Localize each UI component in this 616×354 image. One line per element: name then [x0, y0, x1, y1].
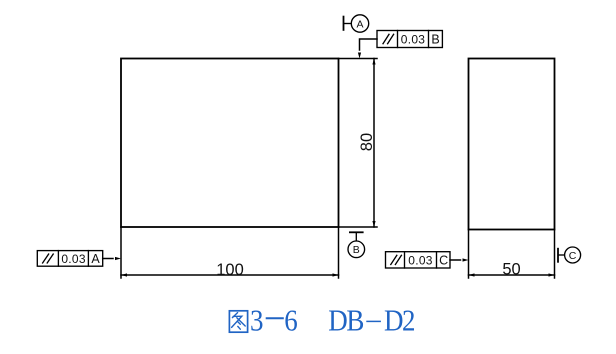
wire top edge extension (for 80 dim): [339, 58, 378, 60]
wire right extension below part 1: [338, 227, 340, 278]
arrow 100 left: [121, 273, 127, 276]
wire left extension below part 1: [120, 227, 122, 278]
wire leader C: [450, 259, 461, 261]
svg-text:3: 3: [250, 304, 263, 338]
datum target A (top): [344, 15, 369, 32]
svg-text:A: A: [91, 252, 100, 266]
svg-text:B: B: [431, 33, 439, 47]
arrow 50 left: [469, 273, 475, 276]
svg-text:0.03: 0.03: [61, 252, 86, 266]
svg-text:D: D: [384, 304, 404, 338]
caption text 3-6 DB-D2: [250, 304, 415, 338]
svg-text:50: 50: [502, 261, 520, 279]
wire leader A: [103, 258, 113, 260]
arrow leader C: [463, 258, 469, 261]
svg-text:C: C: [439, 254, 448, 268]
arrow 80 top: [372, 59, 375, 65]
feature control frame // 0.03 B: [360, 31, 443, 51]
svg-text:B: B: [346, 304, 364, 338]
svg-text:6: 6: [284, 304, 297, 338]
svg-text:100: 100: [216, 261, 244, 279]
arrow 50 right: [549, 273, 555, 276]
arrow leader B: [358, 53, 361, 59]
feature control frame // 0.03 A: [37, 251, 113, 267]
svg-text:C: C: [569, 250, 577, 262]
part 2 outline (right block 50 wide): [469, 59, 555, 230]
svg-text:80: 80: [358, 133, 376, 151]
wire right extension below part 2: [554, 230, 556, 279]
caption character 图 (drawn): [229, 311, 247, 332]
datum target C (right of part 2): [558, 247, 581, 263]
caption dash 1: [266, 317, 284, 319]
svg-text:0.03: 0.03: [408, 253, 433, 267]
feature control frame // 0.03 C: [386, 252, 461, 268]
part 1 outline (left block 100x80): [121, 59, 339, 228]
svg-text:D: D: [328, 304, 348, 338]
wire leader B: [360, 39, 378, 50]
wire bottom edge extension (for 80 dim / datum B): [339, 226, 378, 228]
arrowheads: [115, 53, 555, 277]
dimension line 80: [373, 59, 375, 228]
svg-text:2: 2: [402, 304, 415, 338]
svg-text:0.03: 0.03: [401, 33, 426, 47]
wire left extension below part 2: [468, 230, 470, 279]
arrow 80 bottom: [372, 221, 375, 227]
datum target B (below part 1): [348, 232, 365, 257]
svg-text:B: B: [353, 244, 360, 256]
arrow leader A: [115, 257, 121, 260]
svg-text:A: A: [356, 18, 363, 30]
caption dash 2: [366, 320, 381, 322]
arrow 100 right: [333, 273, 339, 276]
dimension line 100: [121, 274, 339, 276]
dimension line 50: [469, 274, 555, 276]
